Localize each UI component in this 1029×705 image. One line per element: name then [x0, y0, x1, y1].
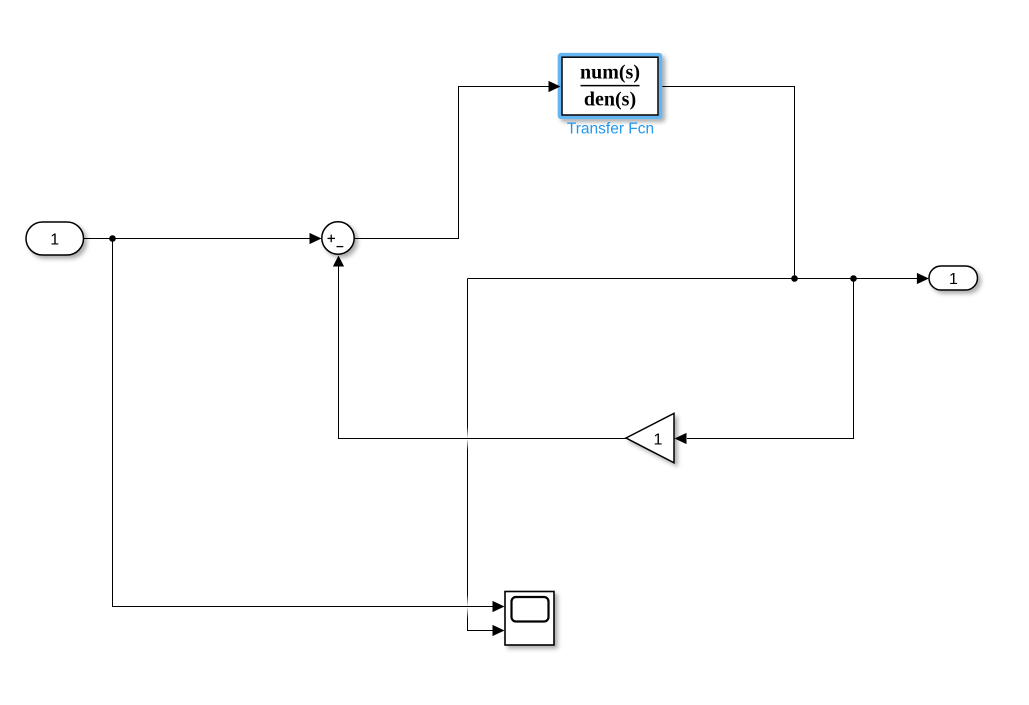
- transfer fcn block (selected): [560, 55, 661, 118]
- wire: main horizontal line to outport: [468, 278, 919, 280]
- inport block 1: [26, 222, 84, 255]
- wire: transfer fcn output down to main line: [658, 87, 795, 279]
- wire: branch down to gain input: [687, 279, 854, 439]
- arrowhead into sum left: [310, 233, 322, 244]
- wire: sum output up to transfer fcn: [354, 87, 550, 239]
- wire: inport junction down to scope input1: [113, 239, 494, 607]
- wire: scope input1 horizontal redraw over fade: [430, 606, 493, 608]
- arrowhead into gain (points left): [675, 433, 687, 444]
- wire: inport to sum: [84, 238, 312, 240]
- transfer fcn fraction bar: [581, 85, 640, 87]
- junction dot at gain branch: [850, 275, 857, 282]
- arrowhead into transfer fcn: [549, 81, 561, 92]
- svg-text:1: 1: [50, 232, 59, 249]
- svg-text:den(s): den(s): [584, 89, 636, 111]
- arrowhead into scope input1: [493, 601, 505, 612]
- outport block 1: [929, 266, 978, 290]
- wire: vertical branch to scope input2: [468, 279, 494, 631]
- gain block: [626, 413, 674, 463]
- wire: gain output to sum bottom input: [339, 266, 627, 439]
- junction dot at transfer fcn output: [791, 275, 798, 282]
- junction dot at inport branch: [109, 235, 116, 242]
- arrowhead into sum bottom: [333, 256, 344, 267]
- sum minus sign: [337, 246, 344, 248]
- wire crossing fade at (467,438): [464, 427, 471, 451]
- arrowhead into scope input2: [493, 625, 505, 636]
- scope screen: [512, 597, 549, 622]
- wire: feedback horizontal redraw over fade: [430, 438, 500, 440]
- scope block: [505, 592, 554, 646]
- arrowhead into outport: [917, 273, 929, 284]
- svg-text:1: 1: [654, 431, 663, 448]
- sum plus sign: [328, 235, 336, 243]
- svg-text:num(s): num(s): [580, 61, 640, 83]
- svg-text:Transfer Fcn: Transfer Fcn: [567, 120, 654, 137]
- sum block: [322, 222, 354, 254]
- svg-text:1: 1: [949, 271, 958, 288]
- wire crossing fade at (467,606): [464, 595, 471, 619]
